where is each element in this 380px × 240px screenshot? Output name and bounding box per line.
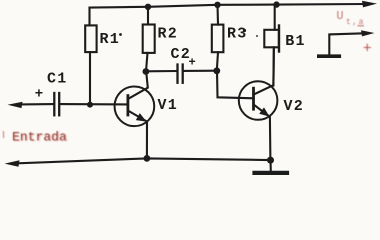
svg-text:V2: V2 [284, 98, 304, 115]
svg-text:+: + [189, 56, 197, 70]
svg-text:V1: V1 [158, 97, 178, 114]
svg-text:+: + [363, 41, 372, 58]
svg-text:Entrada: Entrada [12, 130, 67, 145]
svg-text:R2: R2 [158, 26, 178, 43]
svg-text:R1: R1 [100, 31, 120, 48]
svg-text:C1: C1 [47, 71, 67, 88]
svg-text:R3: R3 [227, 26, 247, 43]
svg-text:U: U [337, 10, 344, 23]
svg-text:+: + [35, 87, 45, 103]
svg-text:B1: B1 [285, 33, 305, 50]
